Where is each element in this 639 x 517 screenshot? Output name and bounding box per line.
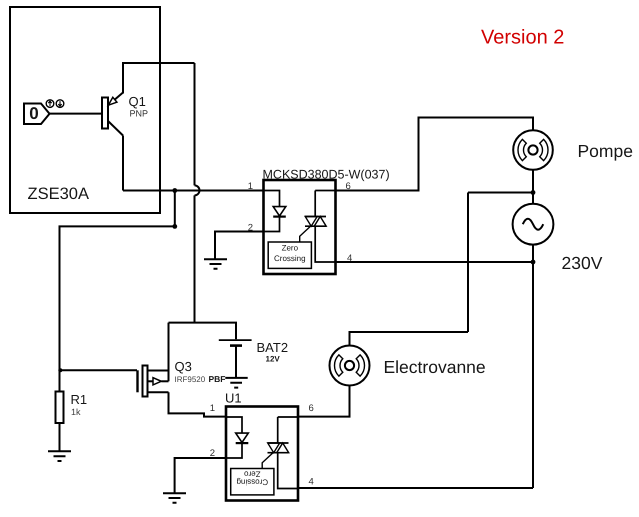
svg-text:PBF: PBF bbox=[209, 374, 226, 384]
svg-text:1k: 1k bbox=[71, 407, 81, 417]
wire electrovanne bottom to U1 pin 6 bbox=[298, 386, 350, 417]
svg-text:Crossing: Crossing bbox=[274, 254, 306, 263]
svg-text:MCKSD380D5-W(037): MCKSD380D5-W(037) bbox=[263, 168, 390, 182]
ground at U1 pin 2 bbox=[163, 493, 186, 503]
wire left and down to R1 bbox=[60, 226, 175, 391]
wire collector to opto pin 1 bbox=[123, 190, 264, 192]
node pompe junction bbox=[531, 190, 536, 195]
wire U1 pin 2 to ground bbox=[175, 458, 226, 493]
svg-text:4: 4 bbox=[309, 477, 314, 488]
wire electrovanne top bbox=[350, 332, 469, 346]
node junction bbox=[172, 188, 177, 193]
wire pompe to ac source bbox=[532, 170, 534, 204]
svg-text:Pompe: Pompe bbox=[578, 141, 633, 161]
ground at opto pin 2 bbox=[204, 259, 227, 269]
svg-text:Electrovanne: Electrovanne bbox=[384, 357, 486, 377]
svg-text:Zero: Zero bbox=[244, 469, 261, 478]
motor Electrovanne bbox=[330, 346, 370, 386]
svg-text:R1: R1 bbox=[71, 392, 88, 407]
svg-text:12V: 12V bbox=[266, 355, 281, 364]
wire opto pin 2 to ground bbox=[215, 232, 264, 259]
wire U1 pin 4 to right rail bbox=[298, 487, 533, 489]
transistor Q3 bbox=[138, 366, 169, 397]
svg-text:0: 0 bbox=[29, 104, 38, 123]
wire drain up bbox=[168, 323, 170, 382]
svg-text:1: 1 bbox=[210, 403, 215, 414]
battery BAT2 bbox=[219, 340, 252, 346]
svg-text:Q3: Q3 bbox=[175, 359, 192, 374]
wire vertical with hop bbox=[194, 63, 196, 323]
wire source down to U1 pin 1 bbox=[169, 392, 227, 416]
transistor Q1 bbox=[102, 93, 123, 136]
wire opto pin 6 to pompe bbox=[336, 118, 534, 191]
wire ac source to node bbox=[532, 245, 534, 262]
wire horizontal into junction bbox=[468, 192, 533, 194]
wire battery to ground bbox=[235, 346, 237, 378]
wire gate bbox=[60, 369, 138, 371]
resistor R1 bbox=[56, 392, 64, 424]
ZSE30A enclosure box bbox=[10, 7, 160, 213]
svg-text:Version 2: Version 2 bbox=[481, 27, 564, 49]
svg-text:ZSE30A: ZSE30A bbox=[28, 185, 89, 203]
svg-text:IRF9520: IRF9520 bbox=[175, 375, 206, 384]
svg-text:U1: U1 bbox=[225, 391, 242, 406]
ac source 230V bbox=[513, 204, 554, 245]
wire base bbox=[50, 113, 103, 115]
motor Pompe bbox=[513, 130, 553, 170]
wire opto pin 4 bbox=[336, 261, 534, 263]
svg-text:Q1: Q1 bbox=[129, 94, 146, 109]
wire emitter loop bbox=[123, 63, 195, 94]
wire right rail down bbox=[532, 262, 534, 488]
node corner junction bbox=[172, 224, 177, 229]
ground under battery bbox=[225, 378, 247, 388]
node ac bottom junction bbox=[531, 260, 536, 265]
wire hop arc bbox=[195, 185, 200, 195]
wire down from node bbox=[174, 191, 176, 227]
wire top rail to battery bbox=[169, 323, 237, 340]
wire collector down bbox=[122, 136, 124, 191]
optocoupler MCKSD380D5-W(037) bbox=[264, 180, 336, 274]
wire R1 to ground bbox=[59, 423, 61, 451]
node gate junction bbox=[58, 368, 62, 372]
svg-text:PNP: PNP bbox=[130, 109, 149, 119]
svg-text:230V: 230V bbox=[562, 253, 603, 273]
svg-text:1: 1 bbox=[248, 181, 253, 192]
svg-text:6: 6 bbox=[309, 403, 314, 414]
wire down to electrovanne rail bbox=[467, 193, 469, 333]
svg-text:BAT2: BAT2 bbox=[257, 340, 289, 355]
ground under R1 bbox=[48, 451, 71, 461]
svg-text:Zero: Zero bbox=[282, 244, 299, 253]
pressure sensor symbol bbox=[24, 100, 64, 124]
optocoupler U1 bbox=[226, 407, 298, 501]
